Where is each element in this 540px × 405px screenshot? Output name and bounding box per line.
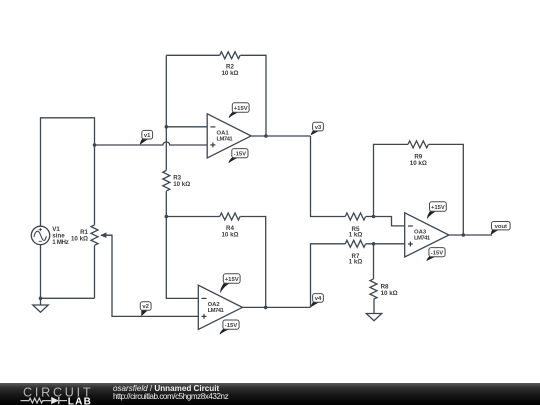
resistor R1 (potentiometer) bbox=[71, 225, 112, 245]
power flag -15V for OA1 bbox=[229, 149, 249, 164]
svg-text:+15V: +15V bbox=[234, 106, 248, 112]
junction R7/R8 bbox=[372, 242, 376, 246]
junction OA1 output bbox=[264, 134, 268, 138]
node label v3 bbox=[311, 122, 324, 135]
ground below V1 bbox=[33, 298, 48, 312]
svg-text:LAB: LAB bbox=[68, 396, 92, 405]
svg-text:vout: vout bbox=[495, 224, 507, 230]
power flag -15V for OA3 bbox=[427, 248, 446, 261]
wire OA1 minus input bbox=[166, 126, 207, 128]
wire from V1 plus up and over to R1 top bbox=[41, 118, 95, 226]
wire OA1 output to node v3 corner bbox=[251, 135, 310, 137]
junction ground V1 bbox=[39, 297, 43, 301]
wire R8 top lead bbox=[373, 244, 375, 279]
svg-text:+15V: +15V bbox=[225, 277, 239, 283]
svg-text:LM741: LM741 bbox=[208, 308, 225, 314]
op-amp OA2 bbox=[198, 285, 242, 329]
svg-text:-15V: -15V bbox=[225, 323, 238, 329]
svg-text:10 kΩ: 10 kΩ bbox=[173, 181, 190, 188]
svg-text:v3: v3 bbox=[315, 125, 322, 131]
junction OA1 minus bbox=[165, 125, 169, 129]
resistor R7 bbox=[345, 240, 365, 265]
wire R1 rail lower bbox=[94, 246, 96, 299]
resistor R8 bbox=[370, 279, 398, 299]
CircuitLab logo bbox=[0, 383, 100, 405]
power flag +15V for OA3 bbox=[427, 202, 446, 219]
voltage source V1 bbox=[31, 226, 68, 246]
wire node v1 to OA1 plus input with hop bbox=[95, 142, 208, 145]
wire R9 right lead and drop to OA3 output bbox=[429, 144, 464, 235]
junction R5/R9 bbox=[372, 215, 376, 219]
wire v4 riser to R7 row bbox=[311, 244, 346, 308]
wire v3 drop to R5 row bbox=[311, 136, 346, 217]
svg-text:10 kΩ: 10 kΩ bbox=[71, 235, 88, 242]
power flag +15V for OA2 bbox=[220, 274, 240, 294]
power flag +15V for OA1 bbox=[229, 103, 249, 119]
wire R2 row left lead bbox=[166, 54, 219, 56]
resistor R4 bbox=[220, 213, 240, 239]
resistor R9 bbox=[408, 141, 428, 167]
svg-text:LM741: LM741 bbox=[414, 236, 431, 242]
svg-text:1 kΩ: 1 kΩ bbox=[349, 259, 363, 266]
footer text bbox=[113, 385, 228, 403]
junction R3/R4 bbox=[165, 215, 169, 219]
wire R4 row left lead bbox=[166, 216, 219, 218]
svg-text:-15V: -15V bbox=[234, 151, 247, 157]
svg-text:10 kΩ: 10 kΩ bbox=[221, 70, 238, 77]
wire jog junction to OA3 minus input bbox=[374, 217, 405, 226]
svg-text:v1: v1 bbox=[144, 133, 151, 139]
node label vout bbox=[491, 222, 510, 235]
wire bottom between V1 and R1 bbox=[41, 297, 95, 299]
wire R9 loop left riser bbox=[374, 144, 409, 216]
node label v1 bbox=[140, 130, 153, 144]
wire V1 minus down bbox=[40, 245, 42, 299]
wire junction down to OA2 minus input bbox=[166, 217, 198, 299]
wire OA2 output to node v4 corner bbox=[242, 306, 310, 308]
resistor R5 bbox=[345, 213, 365, 238]
wire R1 wiper to OA2 plus (node v2) bbox=[101, 235, 198, 316]
svg-text:+15V: +15V bbox=[431, 205, 445, 211]
junction OA2 output bbox=[264, 306, 268, 310]
svg-text:LM741: LM741 bbox=[217, 136, 234, 142]
svg-text:10 kΩ: 10 kΩ bbox=[221, 232, 238, 239]
resistor R2 bbox=[220, 52, 240, 77]
svg-text:10 kΩ: 10 kΩ bbox=[410, 160, 427, 167]
junction node v1 bbox=[93, 143, 97, 147]
power flag -15V for OA2 bbox=[220, 320, 239, 335]
junction OA3 output bbox=[462, 233, 466, 237]
ground below R8 bbox=[366, 300, 381, 321]
wire R5 right lead to junction bbox=[366, 216, 374, 218]
wire OA1 feedback left vertical bbox=[165, 55, 167, 170]
svg-text:1 kΩ: 1 kΩ bbox=[349, 231, 363, 238]
wire R2 row right lead and drop to output bbox=[240, 55, 266, 136]
wire R7 right lead to OA3 plus input bbox=[366, 243, 405, 245]
node label v2 bbox=[140, 302, 151, 317]
wire R4 row right lead and drop to OA2 output bbox=[240, 217, 265, 308]
svg-text:-15V: -15V bbox=[431, 250, 444, 256]
svg-text:1 MHz: 1 MHz bbox=[52, 239, 68, 246]
svg-text:10 kΩ: 10 kΩ bbox=[381, 290, 398, 297]
op-amp OA1 bbox=[207, 114, 251, 158]
node label v4 bbox=[311, 294, 324, 308]
footer bar bbox=[0, 383, 540, 405]
wire R3 bottom to junction bbox=[165, 191, 167, 216]
svg-text:v4: v4 bbox=[315, 296, 322, 302]
resistor R3 bbox=[163, 171, 190, 191]
wire R1 rail upper bbox=[94, 145, 96, 225]
wire OA3 output to vout bbox=[449, 234, 492, 236]
svg-text:v2: v2 bbox=[142, 304, 149, 310]
op-amp OA3 bbox=[405, 213, 449, 257]
